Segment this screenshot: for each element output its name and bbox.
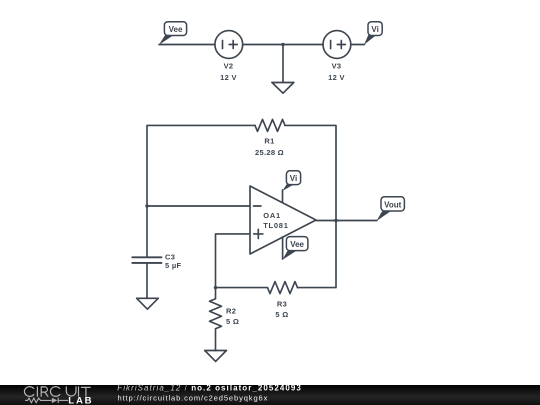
- label V2 value: [220, 62, 237, 83]
- CircuitLab logo text CIRCUIT: [24, 387, 90, 397]
- flag Vi top-right: [364, 22, 382, 45]
- svg-text:V3: V3: [332, 62, 342, 71]
- wire bottom rail left: [216, 287, 268, 289]
- node junction output: [334, 219, 337, 222]
- svg-text:LAB: LAB: [68, 396, 93, 405]
- label C3 value: [165, 252, 181, 270]
- wire feedback top left corner: [147, 125, 255, 206]
- wire to top ground: [282, 45, 284, 83]
- svg-text:C3: C3: [165, 252, 175, 261]
- resistor R2: [210, 288, 222, 351]
- svg-text:V2: V2: [224, 62, 234, 71]
- flag Vi opamp V+: [282, 171, 300, 191]
- voltage source V3: [323, 31, 351, 59]
- label R1 value: [255, 137, 284, 158]
- svg-text:5 µF: 5 µF: [165, 261, 181, 270]
- svg-text:R3: R3: [277, 300, 287, 309]
- svg-text:TL081: TL081: [263, 221, 288, 230]
- label R2 value: [226, 307, 239, 327]
- svg-text:5 Ω: 5 Ω: [226, 317, 239, 326]
- svg-text:Vout: Vout: [384, 201, 402, 210]
- svg-text:Vee: Vee: [169, 25, 183, 34]
- svg-text:R2: R2: [226, 307, 236, 316]
- pin V- stub: [282, 237, 284, 259]
- pin V+ stub: [282, 190, 284, 203]
- flag Vee opamp V-: [282, 237, 308, 260]
- label R3 value: [275, 300, 288, 320]
- svg-text:Vee: Vee: [290, 240, 304, 249]
- op-amp OA1: [250, 186, 316, 254]
- wire output: [316, 220, 377, 222]
- flag Vee top-left: [159, 22, 187, 45]
- node junction left input: [145, 204, 148, 207]
- footer bar: [0, 384, 540, 405]
- ground top: [272, 83, 294, 94]
- label V3 value: [328, 62, 345, 83]
- svg-text:12 V: 12 V: [220, 73, 237, 82]
- svg-text:OA1: OA1: [263, 211, 281, 220]
- voltage source V2: [215, 31, 243, 59]
- wire plus input: [216, 234, 251, 288]
- node junction bottom left: [214, 286, 217, 289]
- svg-text:R1: R1: [264, 137, 274, 146]
- wire feedback top right segment: [285, 125, 336, 220]
- resistor R1: [255, 119, 285, 131]
- svg-text:12 V: 12 V: [328, 73, 345, 82]
- capacitor C3: [132, 257, 161, 263]
- ground below R2: [205, 351, 227, 362]
- svg-text:Vi: Vi: [290, 174, 297, 183]
- svg-text:5 Ω: 5 Ω: [275, 310, 288, 319]
- ground below C3: [137, 298, 159, 309]
- flag Vout: [377, 197, 405, 221]
- svg-text:http://circuitlab.com/c2ed5eby: http://circuitlab.com/c2ed5ebyqkg6x: [118, 393, 269, 402]
- wire to capacitor C3: [146, 206, 148, 257]
- wire top rail right segment: [351, 44, 365, 46]
- CircuitLab logo squiggle: [25, 398, 68, 403]
- wire C3 to ground: [146, 263, 148, 298]
- svg-text:FikriSatria_12 / no.2 osilator: FikriSatria_12 / no.2 osilator_20524093: [117, 384, 302, 393]
- wire top rail left segment: [159, 44, 215, 46]
- node junction top: [281, 43, 284, 46]
- svg-text:25.28 Ω: 25.28 Ω: [255, 148, 284, 157]
- label OA1 TL081: [263, 211, 288, 230]
- svg-text:Vi: Vi: [371, 25, 378, 34]
- wire minus input: [147, 205, 250, 207]
- wire top rail middle segment: [243, 44, 324, 46]
- resistor R3: [268, 282, 298, 294]
- wire bottom rail right corner: [298, 221, 337, 288]
